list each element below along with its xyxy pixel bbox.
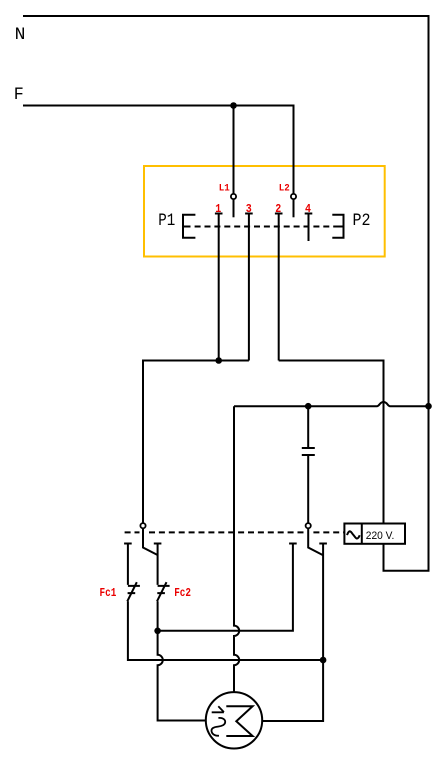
svg-text:2: 2 — [275, 202, 281, 216]
svg-text:3: 3 — [246, 202, 252, 216]
svg-text:4: 4 — [305, 202, 311, 216]
svg-text:P2: P2 — [353, 211, 371, 231]
svg-text:Fc1: Fc1 — [100, 586, 117, 600]
svg-text:220 V.: 220 V. — [366, 530, 395, 542]
svg-text:Fc2: Fc2 — [174, 586, 191, 600]
svg-text:1: 1 — [215, 202, 221, 216]
svg-text:L1: L1 — [219, 183, 230, 195]
svg-text:N: N — [15, 26, 26, 45]
svg-text:F: F — [14, 86, 24, 105]
svg-text:P1: P1 — [158, 211, 175, 231]
svg-text:L2: L2 — [279, 183, 290, 195]
